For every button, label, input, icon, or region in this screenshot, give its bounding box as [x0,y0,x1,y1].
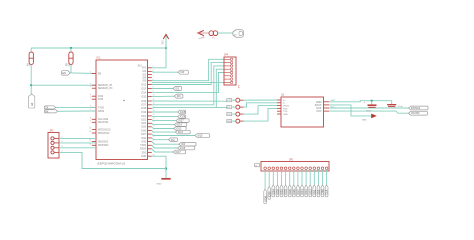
wire TXD0 net [56,106,96,108]
svg-text:IO12: IO12 [304,189,308,195]
svg-text:IO26: IO26 [180,116,186,119]
tag JP5 IO25 [288,185,292,197]
svg-text:21: 21 [153,136,155,138]
supply arrow VUSB left [198,30,209,40]
fuse F1 [209,31,218,40]
svg-text:SCL/IO22: SCL/IO22 [98,119,109,121]
IC1 left pin stubs [89,72,96,146]
wire tag-pin RXI [232,106,236,108]
svg-text:4: 4 [153,73,154,75]
wire net IO15 [152,134,195,135]
wire JP2-2 [59,142,96,144]
connector JP1 pins [236,98,244,123]
svg-text:SHD/SD2: SHD/SD2 [98,141,109,143]
svg-text:SENSOR_VN: SENSOR_VN [98,88,113,90]
wire JP5 pin9 [297,170,299,185]
svg-text:VCC: VCC [316,109,322,113]
svg-text:5: 5 [153,76,154,78]
junction cap node [371,100,373,102]
wire tag-pin TXO [232,113,236,115]
svg-text:IO17: IO17 [141,105,147,107]
wire JP5 pin15 [322,170,324,185]
svg-text:IO33: IO33 [141,141,147,143]
svg-text:TXD: TXD [283,111,288,113]
svg-text:MTDI/IO12: MTDI/IO12 [98,133,110,135]
tag DTR [227,99,232,103]
label JP1 [239,84,241,88]
wire JP5 pin16 [326,170,328,185]
svg-text:MTDO/IO15: MTDO/IO15 [98,129,111,131]
tag GND [227,120,232,124]
wire RXI to U2 [244,103,278,107]
svg-text:IO1: IO1 [175,88,180,91]
svg-text:IO4: IO4 [142,77,146,79]
svg-text:IO2: IO2 [142,74,146,76]
svg-text:IO14: IO14 [177,124,183,127]
IC U2 usb-serial [277,93,329,127]
tag RXI [227,106,232,110]
svg-text:IO0: IO0 [180,71,185,74]
svg-text:IO25: IO25 [141,127,147,129]
svg-text:VBUS: VBUS [283,106,289,108]
svg-text:GND: GND [331,100,336,102]
wire JP5 pin8 [293,170,295,185]
svg-text:VCC/5V: VCC/5V [411,112,420,115]
tag IO27 [176,119,189,123]
svg-text:GND: GND [141,156,146,158]
resistor R2 [67,52,74,66]
svg-text:+: + [364,102,366,104]
svg-text:F1: F1 [212,37,216,40]
svg-text:IO34: IO34 [271,189,275,195]
svg-text:U2: U2 [281,93,285,96]
wire cap2 stub [391,101,393,105]
svg-text:IO14: IO14 [141,92,147,94]
svg-text:IO2: IO2 [171,139,176,142]
tag JP5 IO33 [284,185,288,197]
tag IO3 [174,94,183,98]
svg-text:IO13: IO13 [308,189,312,195]
svg-text:VCC: VCC [331,106,336,108]
wire JP2-3 [59,147,96,149]
wire RXD0 net [58,110,96,112]
svg-text:IO3: IO3 [177,95,182,98]
wire GND to U2 [244,108,278,121]
wire sensor_vp net [31,84,96,86]
svg-text:TXD0: TXD0 [98,107,105,109]
wire net IO4 [152,142,179,145]
svg-text:IO39: IO39 [267,191,271,197]
svg-text:3V3: 3V3 [162,40,164,45]
tag JP5 IO39 [267,186,271,199]
svg-text:CLK: CLK [325,189,329,194]
tag IO25 [178,110,186,114]
IC1 part name [98,161,126,165]
tag IO13 [175,130,190,134]
wire net IO16 [152,145,178,148]
wire 3V3 pin up [152,39,166,68]
svg-text:IO25: IO25 [180,111,186,114]
tag JP5 SD3 [317,185,321,197]
svg-text:GND: GND [157,183,162,185]
wire IO3 net [152,95,175,97]
tag IO15 [195,134,210,138]
tag JP5 IO12 [304,185,308,197]
tag RX [44,110,57,114]
wire U2 GND top [329,101,392,102]
wire JP5 pin5 [281,170,283,185]
connector JP4 header [224,55,236,85]
wire net IO27 [152,120,176,121]
tag VCC right [409,111,428,115]
svg-text:5: 5 [90,97,91,99]
svg-text:17: 17 [153,121,155,123]
ground symbol [157,179,171,186]
svg-text:10uF: 10uF [366,110,371,112]
connector JP5 16pin [261,160,329,171]
tag IO16 [178,146,195,150]
tag JP5 IO36 [263,189,267,204]
tag A0 vertical [29,94,35,108]
tag JP5 IO13 [308,185,312,197]
svg-text:16: 16 [153,118,155,120]
IC1 ESP32 module body [96,56,148,160]
wire IO0 net [152,70,178,73]
svg-text:IO13: IO13 [141,88,147,90]
supply arrow GND right [362,114,377,122]
svg-text:SENSOR_VP: SENSOR_VP [98,85,113,87]
svg-text:RXD: RXD [283,108,288,110]
svg-text:IO12: IO12 [141,84,147,86]
svg-text:0.1uF: 0.1uF [398,106,404,108]
tag JP5 SD2 [312,185,316,197]
junction GND-header [165,167,167,169]
svg-text:D-: D- [283,103,286,105]
wire JP5 pin11 [305,170,307,185]
svg-text:15: 15 [153,114,155,116]
svg-text:P1: P1 [255,165,257,167]
svg-text:DTR: DTR [227,100,232,102]
wire IC1 to JP4 pin2 [152,63,224,85]
wire net IO12 [152,127,174,129]
svg-text:IO26: IO26 [141,130,147,132]
svg-text:GND: GND [362,119,367,121]
svg-text:SDA/IO21: SDA/IO21 [98,121,109,124]
svg-text:TX: TX [45,107,48,110]
wire TXO to U2 [244,106,278,115]
svg-text:RXD0: RXD0 [98,111,105,113]
wire JP5 pin13 [313,170,315,185]
wire JP5 pin1 [264,170,266,189]
svg-text:IO0: IO0 [142,71,146,73]
svg-text:CMD: CMD [321,189,325,195]
svg-text:3: 3 [90,86,91,88]
svg-text:11: 11 [89,131,91,133]
svg-text:IO21: IO21 [141,116,147,118]
wire R1 top [30,48,32,52]
net label b [331,106,336,108]
junction R1-sensor wire [30,84,32,86]
power 3V3 arrow [162,34,168,48]
wire row2 IC1-JP1 [152,107,227,110]
svg-text:IO35: IO35 [276,189,280,195]
wire R2 top [70,48,72,52]
svg-text:GND: GND [283,114,288,116]
tag JP5 CMD [321,185,325,197]
svg-text:RX: RX [45,110,49,113]
svg-text:SD3: SD3 [317,189,321,195]
tag IO0 [178,70,188,74]
svg-text:IO4: IO4 [181,143,186,146]
svg-text:9: 9 [90,120,91,122]
wire cap1 stub [371,101,373,105]
tag IO14 [174,123,187,127]
tag IO4 [179,142,196,146]
tag IO26 [178,115,186,119]
tag TX [44,106,55,110]
tag JP5 IO32 [280,185,284,197]
svg-text:ESP32-WROOM-32: ESP32-WROOM-32 [98,161,126,165]
svg-text:IO15: IO15 [197,135,203,138]
wire net IO26 [152,115,178,118]
svg-text:EN: EN [98,74,102,76]
tag JP5 IO34 [271,185,275,197]
tag EN [62,71,71,75]
connector JP2 [48,131,63,158]
svg-text:IO27: IO27 [141,134,147,136]
IC1 left pin labels [98,74,113,148]
tag IO2 [168,138,177,142]
svg-text:IO14: IO14 [300,189,304,195]
svg-text:3V3: 3V3 [142,68,147,70]
tag IO12 [174,127,186,131]
svg-text:IC1: IC1 [97,56,102,60]
tag IO1 [173,87,182,91]
svg-text:19: 19 [153,129,155,131]
svg-text:IO16: IO16 [141,101,147,103]
svg-text:IO35: IO35 [98,99,104,101]
wire JP5 pin3 [272,170,274,185]
svg-text:IO27: IO27 [178,120,184,123]
svg-text:SD2: SD2 [312,189,316,195]
wire JP5 pin14 [317,170,319,185]
svg-text:18: 18 [153,125,155,127]
svg-text:IO32: IO32 [141,138,147,140]
wire JP5 pin2 [268,170,270,187]
svg-text:IO18: IO18 [141,108,147,110]
svg-text:TXO: TXO [227,114,231,116]
svg-text:IO27: IO27 [296,189,300,195]
svg-text:IO5: IO5 [142,81,146,83]
svg-text:A0: A0 [30,102,34,106]
wire fuse-tag [218,32,233,34]
svg-text:8: 8 [90,117,91,119]
tag JP5 IO27 [296,185,300,197]
junction rail-3V3 arrow [165,47,167,49]
wire EN net [70,72,96,75]
wire JP5 pin10 [301,170,303,185]
svg-text:RXD0: RXD0 [140,149,147,151]
wire net IO14 [152,123,174,124]
svg-text:IO36: IO36 [263,195,267,201]
wire JP4 pin4 branch [216,69,224,107]
svg-text:12: 12 [89,140,91,142]
wire 3V3 rail top [31,47,166,49]
svg-text:1: 1 [90,72,91,74]
wire JP2-4 GND [59,152,166,168]
svg-text:VUSB: VUSB [199,37,206,41]
junction rail-R2 [70,47,72,49]
IC1 right pin labels [140,68,147,158]
svg-text:JP1: JP1 [239,84,241,88]
IC1 right pin stubs [148,66,155,156]
svg-text:IO22: IO22 [141,119,147,121]
capacitor C1 [364,102,377,112]
wire U2 VCC net [329,111,409,113]
tag TXO [227,113,232,117]
wire tag-pin DTR [232,99,236,101]
wire JP5 pin6 [285,170,287,185]
label JP5 pin1 [255,164,260,168]
svg-text:IO17: IO17 [175,151,181,154]
wire GND run [152,156,166,178]
svg-text:10: 10 [89,128,91,130]
svg-text:IO33: IO33 [284,189,288,195]
svg-text:IO15: IO15 [141,96,147,98]
resistor R1 [27,52,34,66]
svg-text:IO25: IO25 [288,189,292,195]
wire JP5 pin7 [289,170,291,185]
svg-text:GND: GND [227,121,232,123]
tag IO17 [173,150,186,154]
wire R2 bottom to EN net [70,65,72,73]
wire JP5 pin12 [309,170,311,185]
wire net IO2 [152,138,169,140]
wire IC1 to JP4 pin1 [152,59,224,80]
wire IC1 to JP4 pin3 [152,66,224,105]
tag JP5 IO14 [300,185,304,197]
tag JP5 IO35 [276,185,280,197]
svg-text:IO34: IO34 [98,96,104,98]
wire tag-pin GND [232,120,236,122]
wire IO1 net [152,88,173,90]
wire net IO13 [152,131,176,133]
tag JP5 CLK [325,185,329,197]
svg-text:IO26: IO26 [292,189,296,195]
svg-text:3: 3 [153,70,154,72]
svg-text:2: 2 [90,83,91,85]
wire net IO25 [152,111,178,113]
capacitor C2 [387,105,403,108]
wire DTR to U2 [244,99,278,101]
wire net IO17 [152,149,173,152]
net label a [331,100,336,102]
tag JP5 IO26 [292,185,296,197]
tag 5V right [233,30,244,37]
svg-text:RXI: RXI [227,107,231,109]
svg-text:JP4: JP4 [224,55,229,57]
wire JP5 pin4 [276,170,278,185]
svg-text:TXD0: TXD0 [140,145,147,147]
tag SCK right [409,106,429,110]
svg-text:D+: D+ [283,100,287,102]
svg-text:SWP/SD3: SWP/SD3 [98,145,109,147]
svg-text:IO19: IO19 [141,112,147,114]
wire JP2-1 [59,137,96,139]
wire row1 IC1-JP1 [152,100,227,102]
svg-text:13: 13 [89,143,91,145]
wire R1 bottom [30,65,32,95]
svg-text:IO16: IO16 [180,147,186,150]
svg-text:IO13: IO13 [178,131,184,134]
svg-text:4: 4 [90,94,91,96]
svg-text:IO23: IO23 [141,123,147,125]
svg-text:EN: EN [62,72,66,75]
wire U2 SCK net [329,107,409,109]
svg-text:IO32: IO32 [280,189,284,195]
svg-text:SD0: SD0 [142,152,147,154]
wire IC1 to JP4 pin5 [152,73,224,93]
wire U2 3OUT to arrow [329,105,371,116]
svg-text:IO5/SCK: IO5/SCK [411,107,421,110]
wire IC1 to JP4 pin8 [152,82,224,84]
